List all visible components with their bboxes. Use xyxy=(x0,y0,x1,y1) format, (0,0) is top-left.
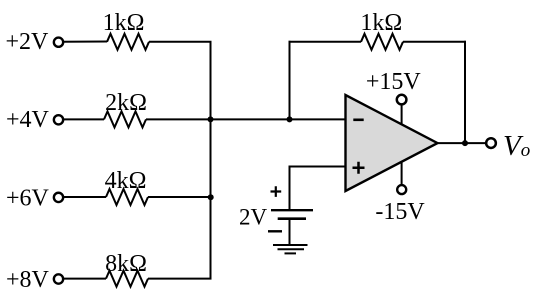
node terminal Vo output xyxy=(486,138,496,148)
svg-text:8kΩ: 8kΩ xyxy=(105,251,147,277)
wire: Rf to feedback right vertical xyxy=(403,41,466,43)
junction dot: bus / row3 xyxy=(208,194,214,200)
battery minus sign xyxy=(268,230,282,232)
node terminal +2V xyxy=(54,38,63,47)
svg-text:+15V: +15V xyxy=(366,69,422,95)
wire: -15V supply lead xyxy=(401,160,403,184)
wire: feedback left vertical from inverting node up xyxy=(289,41,291,120)
wire: op-amp output to Vo terminal xyxy=(436,142,486,144)
node terminal +8V xyxy=(54,274,63,283)
svg-text:1kΩ: 1kΩ xyxy=(360,10,402,36)
junction dot: feedback / output xyxy=(462,140,468,146)
wire row2: R2 through bus and feedback node to op-amp inverting input xyxy=(146,118,346,120)
svg-text:-15V: -15V xyxy=(375,199,425,225)
svg-text:4kΩ: 4kΩ xyxy=(105,168,147,194)
wire: battery branch vertical xyxy=(289,166,291,211)
svg-text:+8V: +8V xyxy=(6,267,50,293)
wire: +15V supply lead xyxy=(401,105,403,126)
svg-text:1kΩ: 1kΩ xyxy=(103,10,145,36)
resistor R1 1kOhm row1 xyxy=(107,34,149,50)
wire row3: R3 to bus xyxy=(148,196,212,198)
wire row2: +4V terminal to R2 xyxy=(62,118,104,120)
svg-text:2V: 2V xyxy=(239,205,268,230)
svg-text:+2V: +2V xyxy=(6,29,50,55)
wire row3: +6V terminal to R3 xyxy=(62,196,106,198)
battery V1 2V positive plate xyxy=(271,209,313,211)
node terminal +15V supply xyxy=(397,95,407,105)
resistor R4 8kOhm row4 xyxy=(106,271,148,287)
wire row4: R4 to bus xyxy=(148,278,212,280)
wire: feedback right vertical down to output node xyxy=(464,41,466,143)
ground symbol xyxy=(273,245,308,253)
wire row1: R1 to bus xyxy=(149,41,212,43)
node terminal +6V xyxy=(54,193,63,202)
junction dot: bus / inverting line xyxy=(208,116,214,122)
wire: op-amp noninverting input horizontal xyxy=(290,166,347,168)
svg-text:+4V: +4V xyxy=(6,107,50,133)
junction dot: feedback / inverting line xyxy=(287,116,293,122)
svg-text:2kΩ: 2kΩ xyxy=(105,90,147,116)
svg-text:+6V: +6V xyxy=(6,185,50,211)
node terminal +4V xyxy=(54,115,63,124)
resistor Rf 1kOhm feedback xyxy=(361,34,403,50)
op-amp U1 triangle xyxy=(346,95,438,191)
op-amp noninverting input plus symbol xyxy=(353,162,365,174)
op-amp inverting input minus symbol xyxy=(353,119,363,122)
resistor R2 2kOhm row2 xyxy=(104,111,146,127)
wire: battery negative to ground xyxy=(289,219,291,245)
battery V1 2V negative plate xyxy=(278,217,306,220)
wire row4: +8V terminal to R4 xyxy=(62,278,106,280)
wire: feedback top horizontal to Rf xyxy=(289,41,362,43)
resistor R3 4kOhm row3 xyxy=(106,189,148,205)
node terminal -15V supply xyxy=(397,185,406,194)
battery plus sign xyxy=(271,186,282,197)
wire row1: +2V terminal to R1 xyxy=(62,41,107,43)
wire: vertical summing bus xyxy=(210,42,212,279)
